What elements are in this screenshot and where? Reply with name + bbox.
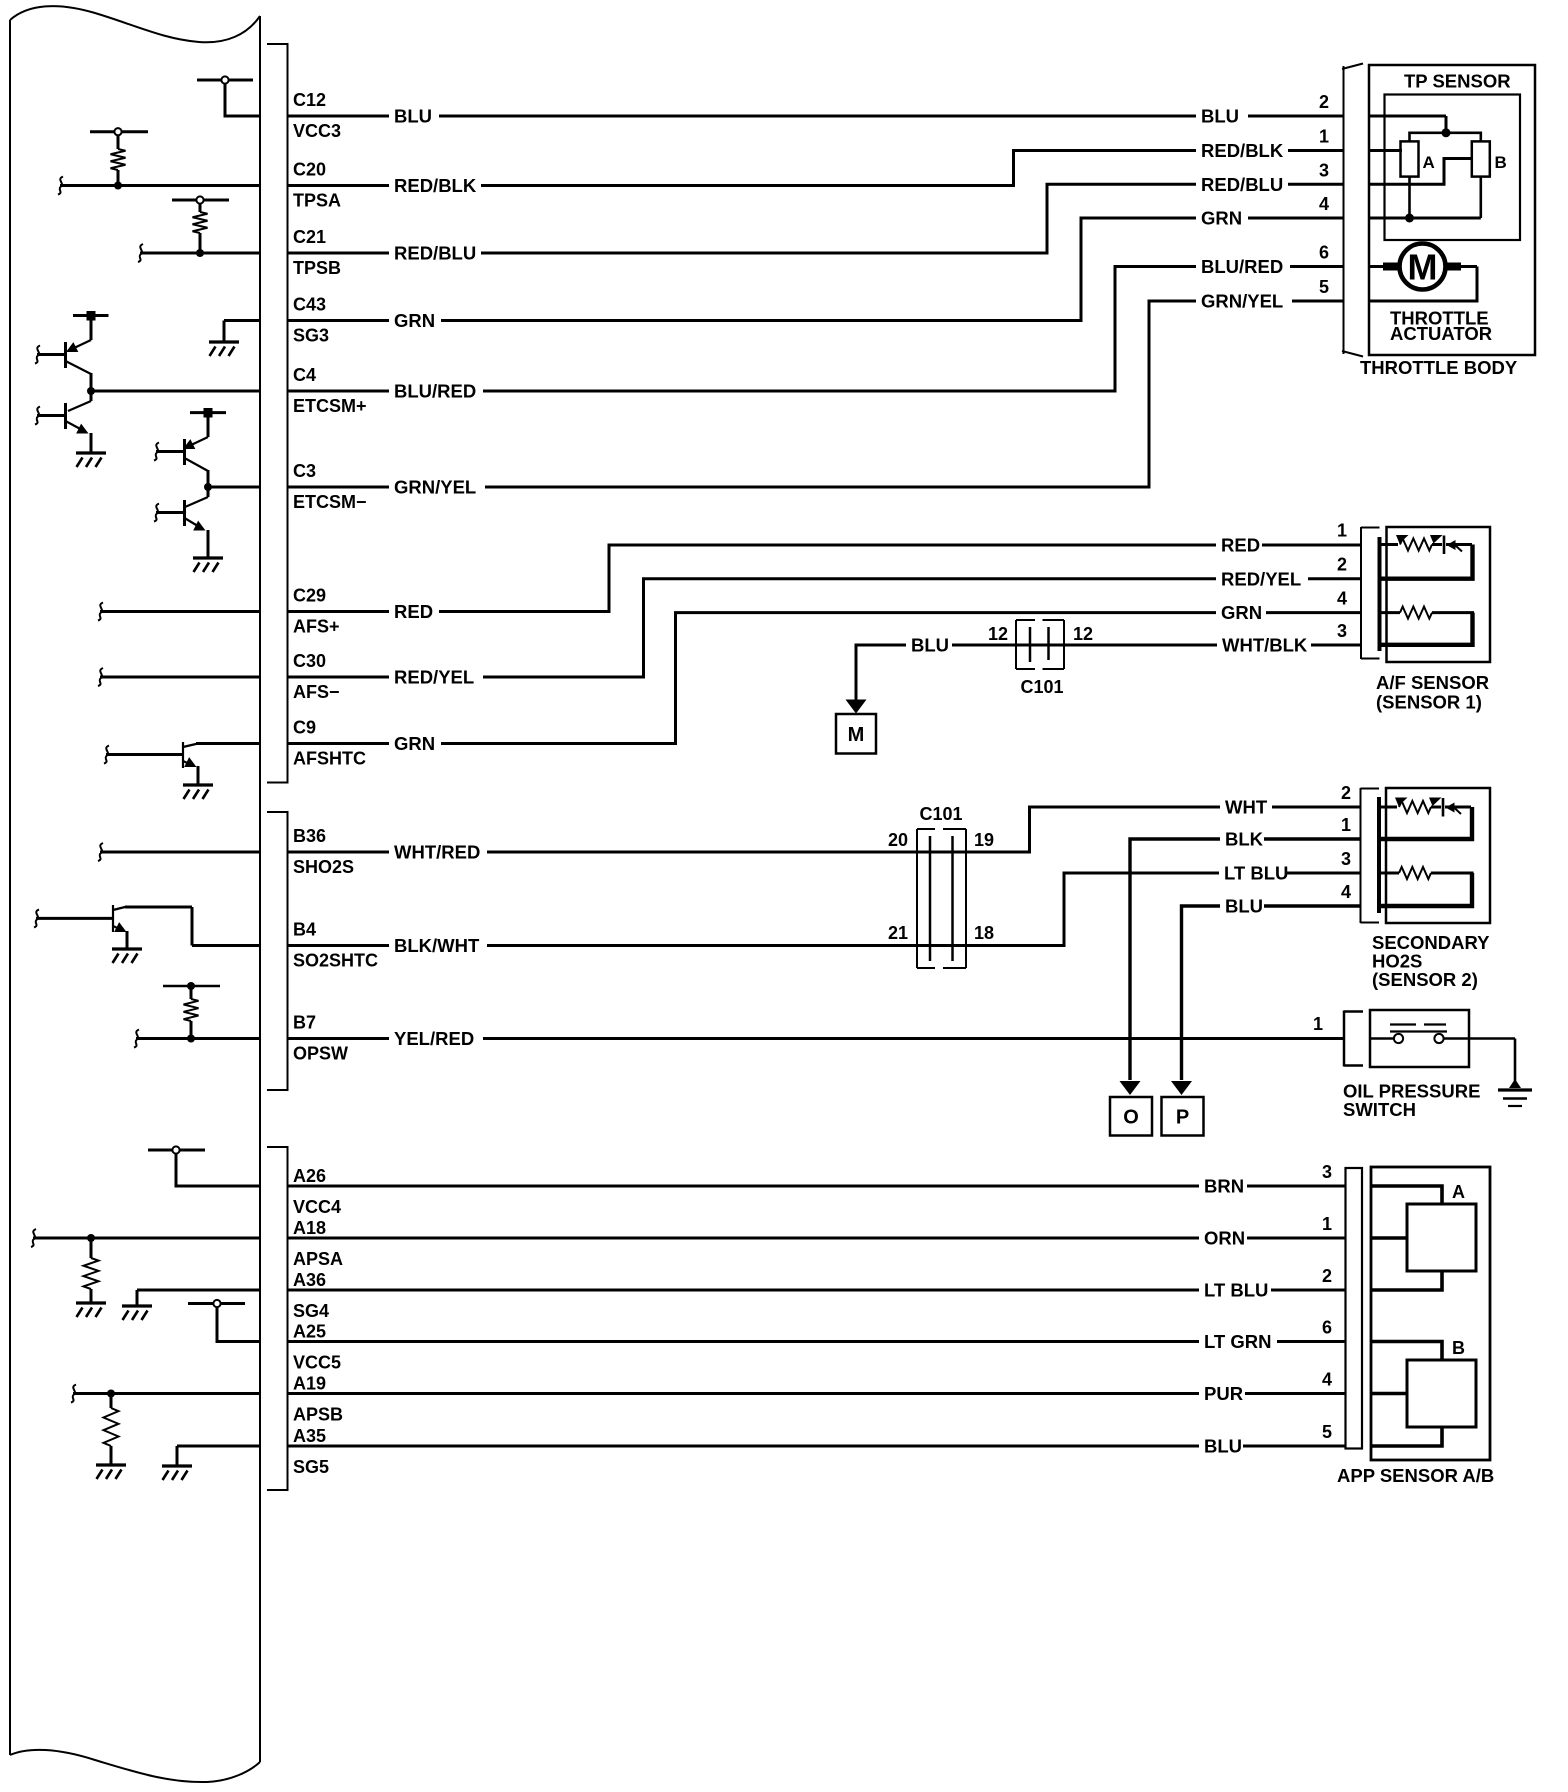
inline connector C101 pins 20/19 and 21/18 (vertical) <box>917 829 966 968</box>
svg-text:BLK: BLK <box>1225 829 1264 850</box>
svg-text:C12: C12 <box>293 90 326 110</box>
wire C29 RED to A/F sensor pin 1 <box>288 545 1362 612</box>
TP sensor wire pin 1 into box <box>1368 149 1402 152</box>
A/F sensor box <box>1387 527 1491 662</box>
svg-text:AFS−: AFS− <box>293 682 340 702</box>
wire C43 GRN to TP sensor pin 4 <box>288 218 1345 321</box>
svg-text:VCC4: VCC4 <box>293 1197 341 1217</box>
ground for Q6 <box>112 949 142 963</box>
pin number 12 right of C101 <box>1073 624 1093 644</box>
ECM connector B bracket <box>267 811 289 1091</box>
svg-text:RED/YEL: RED/YEL <box>1221 568 1301 589</box>
TP sensor wire pin 4 into box <box>1368 217 1481 220</box>
svg-text:BLU/RED: BLU/RED <box>1201 256 1283 277</box>
label TP SENSOR <box>1404 71 1511 92</box>
wire APSA internal <box>31 1229 260 1247</box>
svg-text:A35: A35 <box>293 1426 326 1446</box>
pin number 21 <box>888 923 908 943</box>
svg-text:2: 2 <box>1322 1266 1332 1286</box>
svg-text:BLK/WHT: BLK/WHT <box>394 935 480 956</box>
arrow into M code box <box>846 700 867 714</box>
svg-text:4: 4 <box>1319 194 1329 214</box>
secondary HO2S connector bracket <box>1361 788 1380 923</box>
svg-text:WHT/BLK: WHT/BLK <box>1222 635 1308 656</box>
throttle body box <box>1369 65 1535 355</box>
ground for APSA resistor <box>76 1303 106 1317</box>
svg-text:BLU/RED: BLU/RED <box>394 381 476 402</box>
svg-text:GRN: GRN <box>394 310 435 331</box>
wire TPSB internal <box>138 244 260 262</box>
label SECONDARY HO2S (SENSOR 2) <box>1372 932 1490 990</box>
svg-text:RED/BLK: RED/BLK <box>394 175 477 196</box>
oil pressure switch connector bracket <box>1344 1011 1363 1067</box>
svg-text:RED/BLK: RED/BLK <box>1201 140 1284 161</box>
TP sensor pin numbers <box>1319 92 1329 297</box>
node ETCSM+ junction <box>87 387 260 395</box>
P code box <box>1162 1097 1204 1136</box>
transistor Q3 (PNP high-side driver) <box>154 414 208 487</box>
svg-text:C29: C29 <box>293 586 326 606</box>
transistor Q4 (NPN low-side driver) <box>154 487 208 557</box>
label C101 (horizontal connector) <box>1020 677 1063 697</box>
wire C4 BLU/RED to throttle motor pin 6 <box>288 267 1345 392</box>
svg-text:WHT/RED: WHT/RED <box>394 842 480 863</box>
node VCC3 internal stub with terminal <box>197 76 260 116</box>
wire color labels at component side <box>1196 105 1311 1457</box>
transistor Q6 (secondary HO2S heater driver) <box>34 905 260 948</box>
resistor pull-down on APSB <box>104 1390 119 1465</box>
ground for Q5 <box>183 785 213 799</box>
svg-text:BLU: BLU <box>1201 106 1239 127</box>
svg-text:SWITCH: SWITCH <box>1343 1099 1416 1120</box>
ground for Q2 <box>76 453 106 467</box>
A/F sensor pin numbers <box>1337 521 1347 641</box>
svg-text:A19: A19 <box>293 1374 326 1394</box>
svg-text:B4: B4 <box>293 920 316 940</box>
svg-text:1: 1 <box>1319 127 1329 147</box>
svg-text:APP SENSOR A/B: APP SENSOR A/B <box>1337 1465 1494 1486</box>
secondary HO2S box <box>1386 788 1490 923</box>
wire secondary HO2S pin 4 BLU to node P <box>1182 906 1361 1080</box>
ground for SG4 <box>122 1306 152 1320</box>
transistor Q2 (NPN low-side driver) <box>35 391 91 452</box>
svg-text:3: 3 <box>1322 1162 1332 1182</box>
wire B36 WHT/RED through C101 to secondary HO2S pin 2 <box>288 807 1361 852</box>
svg-text:19: 19 <box>974 830 994 850</box>
wire OPSW internal <box>134 1030 260 1048</box>
svg-text:5: 5 <box>1322 1422 1332 1442</box>
svg-text:C9: C9 <box>293 718 316 738</box>
svg-text:O: O <box>1123 1107 1139 1129</box>
O code box <box>1110 1097 1152 1136</box>
wire oil pressure switch to chassis ground <box>1514 1039 1517 1082</box>
resistor pull-up on TPSA <box>90 128 148 189</box>
svg-text:SO2SHTC: SO2SHTC <box>293 951 378 971</box>
svg-text:APSA: APSA <box>293 1249 343 1269</box>
oil pressure switch S1 contacts <box>1370 1025 1515 1044</box>
ECM connector C bracket <box>267 43 289 784</box>
A/F sensor heater element <box>1380 607 1475 645</box>
svg-text:SG3: SG3 <box>293 326 329 346</box>
svg-text:LT BLU: LT BLU <box>1224 863 1288 884</box>
svg-text:P: P <box>1176 1107 1189 1129</box>
wire A/F sensor pin 3 WHT/BLK branch to motor ground M <box>856 645 1361 700</box>
svg-text:B36: B36 <box>293 826 326 846</box>
svg-text:1: 1 <box>1337 521 1347 541</box>
chassis ground for oil pressure switch <box>1498 1079 1532 1106</box>
TP sensor inner box <box>1385 95 1521 241</box>
wire TPSA internal <box>58 177 260 195</box>
ECM body outline (partial, torn edges) <box>10 6 260 1782</box>
svg-text:TP SENSOR: TP SENSOR <box>1404 71 1511 92</box>
wire AFS- internal <box>98 668 260 686</box>
svg-text:C30: C30 <box>293 651 326 671</box>
node SG5 internal stub <box>177 1446 260 1465</box>
svg-text:GRN/YEL: GRN/YEL <box>1201 291 1283 312</box>
wire C12 BLU to TP sensor pin 2 <box>288 115 1345 118</box>
svg-text:M: M <box>848 724 865 746</box>
wire C21 RED/BLU to TP sensor pin 3 <box>288 184 1345 253</box>
TP sensor bottom interconnect <box>1405 177 1481 223</box>
transistor Q5 (A/F heater driver) <box>104 742 260 784</box>
svg-text:SHO2S: SHO2S <box>293 857 354 877</box>
svg-text:2: 2 <box>1341 783 1351 803</box>
TP sensor top interconnect <box>1410 128 1481 141</box>
svg-text:A: A <box>1452 1182 1465 1202</box>
svg-text:21: 21 <box>888 923 908 943</box>
svg-text:GRN: GRN <box>394 733 435 754</box>
svg-text:C101: C101 <box>1020 677 1063 697</box>
APP sensor connector bracket <box>1346 1168 1363 1449</box>
svg-text:BLU: BLU <box>911 635 949 656</box>
A/F sensor connector bracket <box>1361 527 1380 659</box>
secondary HO2S heater element <box>1379 867 1474 906</box>
svg-text:ORN: ORN <box>1204 1228 1245 1249</box>
svg-text:VCC5: VCC5 <box>293 1353 341 1373</box>
APP sensor element B <box>1372 1338 1476 1446</box>
pin number 1 of oil pressure switch <box>1313 1014 1323 1034</box>
label APP SENSOR A/B <box>1337 1465 1494 1486</box>
node VCC4 internal stub with terminal <box>148 1146 260 1186</box>
node SG4 internal stub <box>137 1290 260 1305</box>
svg-text:A18: A18 <box>293 1218 326 1238</box>
svg-text:BLU: BLU <box>394 106 432 127</box>
pin number 20 <box>888 830 908 850</box>
svg-text:C4: C4 <box>293 365 316 385</box>
svg-text:3: 3 <box>1337 621 1347 641</box>
throttle body connector bracket <box>1342 64 1363 357</box>
ground for SG5 <box>162 1466 192 1480</box>
TP sensor wire pin 2 into box <box>1368 116 1446 133</box>
svg-text:12: 12 <box>988 624 1008 644</box>
svg-text:RED/BLU: RED/BLU <box>394 243 476 264</box>
pin number 19 <box>974 830 994 850</box>
svg-text:6: 6 <box>1319 243 1329 263</box>
svg-text:5: 5 <box>1319 277 1329 297</box>
ground for APSB resistor <box>96 1465 126 1479</box>
svg-text:RED: RED <box>394 601 433 622</box>
svg-text:APSB: APSB <box>293 1405 343 1425</box>
wire A36 LT BLU to APP sensor pin 2 <box>288 1289 1346 1292</box>
wire AFS+ internal <box>98 603 260 621</box>
svg-text:TPSA: TPSA <box>293 191 341 211</box>
svg-text:6: 6 <box>1322 1318 1332 1338</box>
svg-text:WHT: WHT <box>1225 797 1268 818</box>
svg-text:SG5: SG5 <box>293 1457 329 1477</box>
wire C3 GRN/YEL to throttle motor pin 5 <box>288 301 1345 487</box>
wire A26 BRN to APP sensor pin 3 <box>288 1185 1346 1188</box>
svg-text:OPSW: OPSW <box>293 1044 348 1064</box>
wire color label BLU on M branch <box>906 634 952 656</box>
resistor pull-down on APSA <box>84 1234 99 1302</box>
svg-text:A26: A26 <box>293 1166 326 1186</box>
wire B4 BLK/WHT through C101 to secondary HO2S pin 3 <box>288 873 1361 946</box>
svg-text:LT GRN: LT GRN <box>1204 1331 1271 1352</box>
wire A25 LT GRN to APP sensor pin 6 <box>288 1340 1346 1343</box>
ECM connector A bracket <box>267 1146 289 1491</box>
arrow into P code box <box>1171 1081 1192 1095</box>
label THROTTLE BODY <box>1360 357 1518 378</box>
svg-text:LT BLU: LT BLU <box>1204 1280 1268 1301</box>
wire A19 PUR to APP sensor pin 4 <box>288 1392 1346 1395</box>
svg-text:(SENSOR 1): (SENSOR 1) <box>1376 692 1482 713</box>
svg-text:RED: RED <box>1221 535 1260 556</box>
svg-text:BLU: BLU <box>1225 896 1263 917</box>
label THROTTLE ACTUATOR <box>1390 308 1492 345</box>
svg-text:M: M <box>1408 247 1438 288</box>
svg-text:BRN: BRN <box>1204 1176 1244 1197</box>
svg-text:THROTTLE BODY: THROTTLE BODY <box>1360 357 1518 378</box>
wire A35 BLU to APP sensor pin 5 <box>288 1445 1346 1448</box>
svg-text:12: 12 <box>1073 624 1093 644</box>
wire C20 RED/BLK to TP sensor pin 1 <box>288 151 1345 186</box>
APP sensor box <box>1371 1167 1490 1460</box>
svg-text:4: 4 <box>1322 1370 1332 1390</box>
svg-text:ETCSM−: ETCSM− <box>293 492 367 512</box>
ECM pin terminal labels groups C and B <box>293 90 378 1064</box>
svg-text:GRN: GRN <box>1201 208 1242 229</box>
TP sensor resistor B <box>1472 141 1507 176</box>
svg-text:C3: C3 <box>293 461 316 481</box>
node SG3 internal stub <box>224 321 260 342</box>
svg-text:AFSHTC: AFSHTC <box>293 749 366 769</box>
svg-text:2: 2 <box>1319 92 1329 112</box>
oil pressure switch box <box>1370 1010 1469 1067</box>
svg-text:18: 18 <box>974 923 994 943</box>
svg-text:C20: C20 <box>293 160 326 180</box>
svg-text:PUR: PUR <box>1204 1383 1243 1404</box>
svg-text:SG4: SG4 <box>293 1301 329 1321</box>
svg-text:GRN/YEL: GRN/YEL <box>394 477 476 498</box>
svg-text:(SENSOR 2): (SENSOR 2) <box>1372 969 1478 990</box>
svg-text:A25: A25 <box>293 1322 326 1342</box>
svg-text:B: B <box>1495 153 1507 172</box>
svg-text:ACTUATOR: ACTUATOR <box>1390 323 1492 344</box>
pin number 18 <box>974 923 994 943</box>
svg-text:B7: B7 <box>293 1013 316 1033</box>
TP sensor resistor A <box>1401 141 1435 176</box>
svg-text:TPSB: TPSB <box>293 258 341 278</box>
svg-text:YEL/RED: YEL/RED <box>394 1028 474 1049</box>
resistor pull-up on TPSB <box>172 196 229 257</box>
wire B7 YEL/RED to oil pressure switch <box>288 1037 1345 1040</box>
svg-text:RED/BLU: RED/BLU <box>1201 174 1283 195</box>
svg-text:3: 3 <box>1319 160 1329 180</box>
label C101 (vertical connector) <box>919 804 962 824</box>
A/F sensor element (sensor 1) <box>1380 535 1473 579</box>
wire secondary HO2S pin 1 BLK to node O <box>1130 839 1361 1080</box>
svg-text:20: 20 <box>888 830 908 850</box>
inline connector C101 pin 12 (horizontal) <box>1016 620 1064 669</box>
svg-text:4: 4 <box>1337 589 1347 609</box>
svg-text:C43: C43 <box>293 295 326 315</box>
svg-text:A/F SENSOR: A/F SENSOR <box>1376 672 1489 693</box>
arrow into O code box <box>1120 1081 1141 1095</box>
TP sensor wire pin 3 into box <box>1368 159 1472 185</box>
wire color labels at ECM side <box>389 105 487 1049</box>
secondary HO2S pin numbers <box>1341 783 1351 902</box>
wire A18 ORN to APP sensor pin 1 <box>288 1237 1346 1240</box>
APP sensor pin numbers <box>1322 1162 1332 1442</box>
svg-text:VCC3: VCC3 <box>293 121 341 141</box>
svg-text:2: 2 <box>1337 555 1347 575</box>
label OIL PRESSURE SWITCH <box>1343 1081 1480 1121</box>
svg-text:RED/YEL: RED/YEL <box>394 667 474 688</box>
svg-text:AFS+: AFS+ <box>293 617 340 637</box>
svg-text:1: 1 <box>1341 815 1351 835</box>
svg-text:A36: A36 <box>293 1270 326 1290</box>
svg-text:BLU: BLU <box>1204 1436 1242 1457</box>
ECM pin terminal labels group A <box>293 1166 343 1477</box>
svg-text:3: 3 <box>1341 849 1351 869</box>
throttle actuator motor M1 <box>1368 244 1477 302</box>
ground for SG3 <box>209 342 239 356</box>
node ETCSM- junction <box>204 483 260 491</box>
supply rail for Q3 <box>190 408 226 418</box>
svg-text:1: 1 <box>1322 1214 1332 1234</box>
wire C30 RED/YEL to A/F sensor pin 2 <box>288 579 1362 677</box>
svg-text:1: 1 <box>1313 1014 1323 1034</box>
wire APSB internal <box>71 1385 260 1403</box>
svg-text:GRN: GRN <box>1221 602 1262 623</box>
node VCC5 internal stub with terminal <box>188 1300 260 1342</box>
wire C9 GRN to A/F sensor pin 4 <box>288 613 1362 744</box>
svg-text:C21: C21 <box>293 227 326 247</box>
M code box <box>836 714 876 754</box>
svg-text:ETCSM+: ETCSM+ <box>293 396 367 416</box>
svg-text:B: B <box>1452 1338 1465 1358</box>
APP sensor element A <box>1372 1182 1476 1290</box>
resistor pull-up on OPSW <box>163 982 220 1043</box>
label A/F SENSOR (SENSOR 1) <box>1376 672 1489 713</box>
secondary HO2S element (sensor 2) <box>1379 798 1472 840</box>
pin number 12 left of C101 <box>988 624 1008 644</box>
svg-text:C101: C101 <box>919 804 962 824</box>
wire SHO2S internal <box>98 843 260 861</box>
svg-text:A: A <box>1423 153 1435 172</box>
ground for Q4 <box>193 558 223 572</box>
svg-text:4: 4 <box>1341 882 1351 902</box>
transistor Q1 (PNP high-side driver) <box>35 317 91 391</box>
supply rail for Q1 <box>73 311 109 321</box>
